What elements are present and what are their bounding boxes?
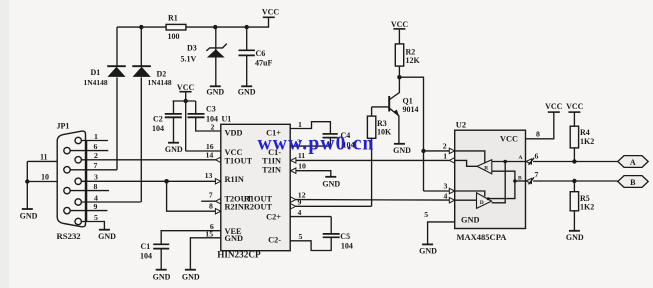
capacitor C4 (323, 131, 355, 149)
svg-text:6: 6 (535, 151, 539, 160)
JP1 pin 4 (75, 199, 81, 205)
pin 7 B marker (526, 170, 539, 184)
ground under C6 (238, 86, 256, 96)
svg-text:2: 2 (211, 123, 215, 132)
svg-text:10: 10 (298, 162, 306, 171)
svg-text:8: 8 (209, 202, 213, 211)
svg-text:100: 100 (168, 32, 180, 41)
node junction D2 top (139, 25, 143, 29)
wire R1OUT to U2 DI (296, 199, 449, 202)
capacitor C5 104 (323, 217, 353, 251)
node A terminal flag (618, 156, 648, 168)
svg-text:10: 10 (41, 172, 49, 181)
VCC above R2 (391, 20, 409, 44)
ground under C1 (153, 270, 171, 282)
svg-text:3: 3 (94, 173, 98, 182)
ground under R5 (566, 231, 584, 242)
wire pin4 to D2 (81, 201, 141, 203)
svg-text:10K: 10K (377, 127, 392, 136)
pin 13 R1IN arrow (215, 179, 220, 184)
JP1 pin 1 (75, 137, 81, 143)
JP1 pin 7 (64, 167, 70, 173)
VCC above C2 C3 (177, 83, 195, 151)
resistor R5 1K2 (570, 181, 594, 231)
svg-text:15: 15 (205, 229, 213, 238)
node R1IN junction (164, 179, 169, 184)
svg-text:GND: GND (20, 211, 38, 220)
wire to C2 C3 tops (173, 100, 196, 102)
pin 10 T2IN arrow (291, 168, 296, 173)
wire pin16 VCC (186, 150, 221, 152)
svg-text:GND: GND (566, 233, 584, 242)
svg-text:www.pw0.cn: www.pw0.cn (258, 134, 375, 155)
svg-text:5: 5 (298, 232, 302, 241)
wire pin3 C1- (290, 145, 330, 147)
wire pin7 to D1 (70, 169, 117, 171)
pin 9 R2OUT arrow (290, 204, 295, 209)
wire R2IN from node (167, 181, 216, 211)
svg-text:VCC: VCC (500, 135, 518, 144)
wire pin6 stub (70, 150, 109, 152)
driver triangle D (455, 191, 492, 208)
svg-text:47uF: 47uF (255, 59, 272, 68)
node B terminal flag (618, 176, 648, 188)
wire pin1 stub (81, 140, 108, 142)
wire pin9 stub (70, 210, 108, 212)
svg-text:GND: GND (393, 146, 411, 155)
pin 14 T1OUT arrow (216, 157, 221, 162)
node RE junction (421, 149, 425, 153)
diode D2 1N4148 (132, 27, 172, 202)
svg-text:R2OUT: R2OUT (244, 203, 273, 212)
pin 6 A marker (526, 151, 539, 165)
wire left vertical to ground (26, 161, 28, 208)
wire pin1 C1+ (290, 122, 330, 134)
node junction C6 top (245, 25, 249, 29)
svg-text:C3: C3 (206, 104, 216, 113)
pin 11 T1IN arrow (291, 158, 296, 163)
svg-text:104: 104 (140, 251, 152, 260)
svg-text:R2: R2 (406, 48, 416, 57)
svg-text:R1: R1 (168, 14, 178, 23)
VCC pin8 (545, 102, 563, 112)
svg-text:MAX485CPA: MAX485CPA (457, 232, 508, 242)
op-amp U2 MAX485CPA box (455, 120, 526, 243)
svg-text:VCC: VCC (225, 148, 243, 157)
ground under D3 (206, 86, 224, 96)
svg-text:7: 7 (535, 170, 539, 179)
capacitor C1 104 (140, 242, 169, 269)
svg-text:1N4148: 1N4148 (148, 78, 172, 87)
wire pin6 VEE (161, 231, 221, 244)
pin 1 U2 arrow (449, 158, 454, 163)
svg-text:U1: U1 (222, 114, 232, 123)
svg-text:8: 8 (94, 182, 98, 191)
inner wire B net (488, 171, 515, 198)
zener D3 5.1V (181, 27, 227, 86)
resistor R4 1K2 (570, 126, 594, 161)
svg-text:JP1: JP1 (57, 121, 70, 130)
resistor R3 10K (367, 107, 392, 206)
svg-text:A: A (519, 155, 523, 161)
svg-text:VCC: VCC (566, 102, 584, 111)
svg-text:HIN232CP: HIN232CP (217, 250, 261, 260)
capacitor C2 104 (152, 101, 182, 142)
JP1 pin 6 (64, 147, 70, 153)
svg-text:C6: C6 (256, 49, 266, 58)
svg-text:B: B (630, 178, 636, 187)
capacitor C6 47uF (239, 27, 273, 86)
svg-text:GND: GND (98, 232, 116, 241)
svg-text:5: 5 (94, 213, 98, 222)
receiver triangle R (455, 151, 492, 174)
node collector junction (397, 75, 401, 79)
svg-text:14: 14 (206, 150, 214, 159)
svg-text:4: 4 (443, 191, 447, 200)
wire pin5 to GND (81, 222, 105, 230)
svg-text:2: 2 (94, 151, 98, 160)
JP1 pin 3 (75, 178, 81, 184)
pin 7 T2OUT arrow (216, 199, 221, 204)
svg-text:D2: D2 (157, 69, 167, 78)
wire T1IN to U2 RO (296, 159, 449, 161)
node 10 wire (27, 181, 57, 183)
svg-text:12K: 12K (406, 56, 421, 65)
svg-text:9014: 9014 (403, 105, 419, 114)
svg-text:T2IN: T2IN (262, 165, 281, 174)
pin 8 R2IN arrow (215, 209, 220, 214)
svg-text:GND: GND (419, 246, 437, 255)
svg-text:R2IN: R2IN (225, 203, 244, 212)
svg-text:13: 13 (205, 171, 213, 180)
svg-text:A: A (630, 158, 636, 167)
svg-text:104: 104 (341, 242, 353, 251)
VCC above R4 (566, 102, 584, 126)
wire top rail right (186, 17, 269, 27)
svg-text:1: 1 (298, 120, 302, 129)
svg-text:8: 8 (536, 130, 540, 139)
svg-text:5.1V: 5.1V (181, 55, 197, 64)
svg-text:D1: D1 (91, 68, 101, 77)
ground under pin5 (98, 230, 116, 242)
svg-text:C2-: C2- (268, 236, 281, 245)
resistor R2 12K (395, 44, 420, 66)
pin 4 U2 arrow (449, 198, 454, 203)
wire pin15 GND (190, 238, 220, 269)
wire collector to RE DE (399, 77, 423, 191)
wire vertical pin1-pin5 tie (86, 141, 88, 222)
svg-text:VCC: VCC (545, 102, 563, 111)
svg-text:104: 104 (152, 124, 164, 133)
ground T2IN (322, 177, 340, 189)
JP1 pin 8 (64, 187, 70, 193)
svg-text:GND: GND (238, 88, 256, 97)
svg-text:VCC: VCC (177, 83, 195, 92)
svg-text:D: D (480, 200, 484, 206)
node 11 wire (27, 160, 57, 162)
pin 2 U2 arrow (449, 148, 454, 153)
pin 12 R1OUT arrow (290, 197, 295, 202)
svg-text:C5: C5 (340, 232, 350, 241)
svg-text:1: 1 (443, 151, 447, 160)
wire R2OUT to R3 (296, 205, 372, 207)
svg-text:7: 7 (94, 161, 98, 170)
svg-text:C1: C1 (141, 242, 151, 251)
capacitor C3 104 (188, 101, 221, 131)
wire pin5 U2 ground (428, 222, 455, 244)
wire DE pin3 (424, 190, 450, 192)
node junction D3 top (213, 25, 217, 29)
op-amp U1 HIN232CP box (217, 124, 290, 259)
JP1 pin 2 (75, 157, 81, 163)
ground under pin15 (182, 270, 200, 282)
svg-text:VCC: VCC (391, 20, 409, 29)
svg-text:GND: GND (165, 145, 183, 154)
svg-text:5: 5 (424, 210, 428, 219)
svg-text:1K2: 1K2 (580, 202, 594, 211)
wire top rail left (117, 26, 166, 28)
svg-text:11: 11 (40, 152, 48, 161)
wire pin3 to R1IN (81, 180, 216, 182)
node VCC junction (184, 99, 188, 103)
svg-text:1: 1 (94, 132, 98, 141)
svg-text:RS232: RS232 (57, 231, 81, 241)
svg-text:1K2: 1K2 (580, 137, 594, 146)
svg-text:6: 6 (94, 142, 98, 151)
JP1 pin 5 (75, 218, 81, 224)
svg-text:GND: GND (225, 234, 243, 243)
svg-text:1N4148: 1N4148 (84, 78, 108, 87)
ground U2 (419, 244, 437, 255)
ground under C2 (165, 143, 183, 154)
wire R2 to Q1 collector (390, 66, 400, 99)
svg-text:C2+: C2+ (266, 212, 281, 221)
svg-text:GND: GND (182, 272, 200, 281)
svg-text:9: 9 (297, 198, 301, 207)
svg-text:9: 9 (94, 202, 98, 211)
svg-text:VCC: VCC (262, 8, 280, 17)
wire pin8 VCC (526, 112, 554, 139)
svg-text:T1IN: T1IN (262, 157, 281, 166)
inner wire A net (492, 161, 526, 163)
JP1 pin 9 (64, 207, 70, 213)
ground under Q1 (393, 144, 411, 155)
svg-text:U2: U2 (456, 120, 466, 130)
svg-text:3: 3 (443, 181, 447, 190)
svg-text:2: 2 (443, 141, 447, 150)
wire A line (533, 161, 618, 163)
VCC top (262, 8, 280, 18)
pin 3 U2 arrow (449, 188, 454, 193)
svg-text:B: B (518, 176, 522, 182)
wire pin8 stub (70, 190, 109, 192)
svg-text:4: 4 (297, 208, 301, 217)
wire T2OUT stub (201, 200, 215, 202)
svg-text:GND: GND (461, 216, 479, 225)
svg-text:R1IN: R1IN (225, 175, 244, 184)
wire pin2 to T1OUT (81, 159, 216, 161)
svg-text:GND: GND (322, 179, 340, 188)
svg-text:C2: C2 (153, 114, 163, 123)
svg-text:VDD: VDD (225, 128, 243, 137)
svg-text:GND: GND (206, 88, 224, 97)
wire T2IN to ground (296, 171, 331, 177)
transistor Q1 9014 (372, 96, 419, 143)
resistor R1 (166, 14, 186, 42)
svg-text:T1OUT: T1OUT (225, 157, 253, 166)
svg-text:GND: GND (153, 272, 171, 281)
connector JP1 DB9 body (57, 121, 86, 227)
diode D1 1N4148 (84, 27, 126, 170)
wire pin4 C2+ (290, 216, 331, 218)
svg-text:7: 7 (209, 190, 213, 199)
svg-text:D3: D3 (187, 44, 197, 53)
wire B line (533, 180, 618, 182)
ground left of JP1 (20, 209, 38, 220)
wire pin5 C2- (290, 237, 331, 250)
wire RE pin2 (424, 150, 450, 152)
